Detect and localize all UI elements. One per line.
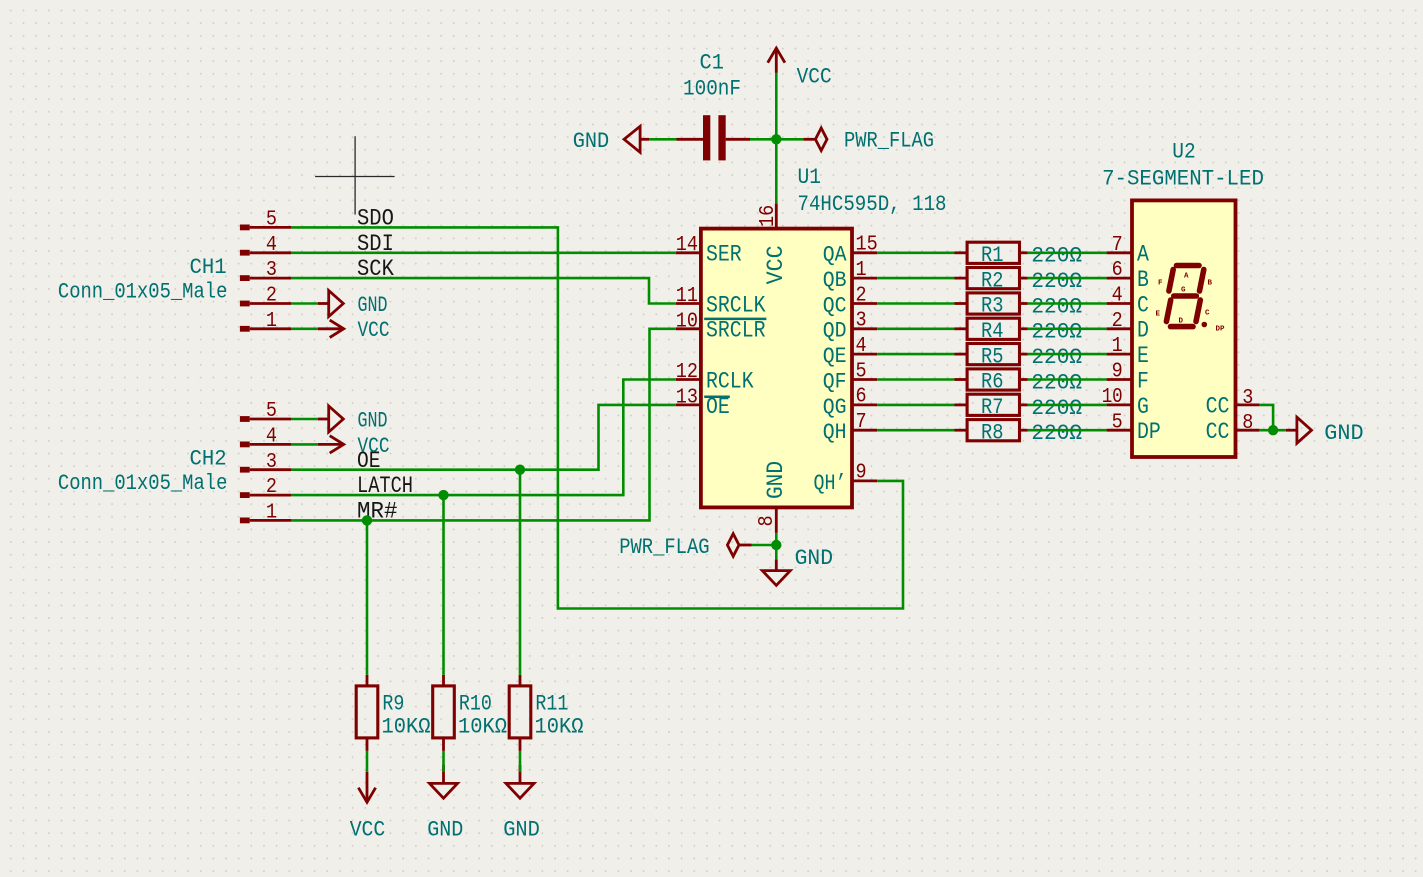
svg-text:7-SEGMENT-LED: 7-SEGMENT-LED (1102, 166, 1264, 192)
svg-text:VCC: VCC (358, 317, 390, 343)
svg-text:SRCLK: SRCLK (706, 292, 766, 318)
svg-text:4: 4 (856, 334, 867, 358)
svg-text:10KΩ: 10KΩ (382, 714, 431, 740)
svg-text:QF: QF (823, 369, 847, 394)
svg-text:Conn_01x05_Male: Conn_01x05_Male (58, 278, 228, 304)
svg-text:D: D (1137, 318, 1149, 344)
svg-text:R4: R4 (981, 318, 1004, 344)
svg-text:5: 5 (1112, 410, 1123, 434)
svg-text:5: 5 (266, 399, 277, 423)
svg-text:R1: R1 (981, 242, 1004, 268)
svg-text:74HC595D, 118: 74HC595D, 118 (798, 191, 947, 217)
svg-text:VCC: VCC (763, 245, 789, 284)
svg-text:DP: DP (1216, 326, 1226, 334)
svg-text:SRCLR: SRCLR (706, 318, 766, 344)
svg-text:B: B (1137, 267, 1149, 293)
svg-text:DP: DP (1137, 419, 1161, 445)
svg-text:R6: R6 (981, 369, 1004, 395)
svg-text:PWR_FLAG: PWR_FLAG (844, 128, 934, 154)
svg-text:CC: CC (1206, 419, 1230, 445)
svg-text:QA: QA (823, 243, 848, 268)
svg-text:QC: QC (823, 293, 847, 318)
svg-text:9: 9 (1112, 360, 1123, 384)
svg-text:SER: SER (706, 242, 742, 268)
svg-text:8: 8 (1242, 411, 1253, 435)
svg-text:2: 2 (856, 283, 867, 307)
svg-text:6: 6 (856, 385, 867, 409)
svg-text:E: E (1137, 343, 1149, 369)
svg-text:R8: R8 (981, 419, 1004, 445)
svg-text:GND: GND (795, 545, 833, 571)
svg-text:4: 4 (266, 233, 277, 257)
svg-text:G: G (1137, 394, 1149, 420)
svg-text:3: 3 (1242, 386, 1253, 410)
svg-text:G: G (1181, 287, 1186, 295)
svg-text:13: 13 (676, 385, 698, 409)
svg-text:E: E (1156, 311, 1161, 319)
svg-text:1: 1 (856, 258, 867, 282)
svg-text:U1: U1 (798, 164, 822, 190)
svg-text:2: 2 (266, 284, 277, 308)
svg-text:B: B (1208, 280, 1213, 288)
svg-text:R9: R9 (382, 691, 404, 717)
svg-text:16: 16 (756, 205, 780, 227)
svg-text:220Ω: 220Ω (1031, 344, 1082, 370)
svg-text:3: 3 (266, 450, 277, 474)
svg-text:15: 15 (856, 233, 878, 257)
svg-text:R11: R11 (535, 691, 568, 717)
svg-text:GND: GND (427, 816, 463, 842)
svg-text:220Ω: 220Ω (1031, 293, 1082, 319)
svg-text:6: 6 (1112, 258, 1123, 282)
svg-text:A: A (1184, 273, 1189, 281)
svg-text:QH’: QH’ (814, 471, 847, 496)
svg-text:220Ω: 220Ω (1031, 268, 1082, 294)
svg-text:1: 1 (266, 501, 277, 525)
svg-text:220Ω: 220Ω (1031, 319, 1082, 345)
svg-text:7: 7 (1112, 233, 1123, 257)
svg-text:1: 1 (1112, 334, 1123, 358)
svg-text:4: 4 (1112, 284, 1123, 308)
svg-text:Conn_01x05_Male: Conn_01x05_Male (58, 470, 228, 496)
svg-text:VCC: VCC (350, 816, 386, 842)
svg-text:10: 10 (676, 309, 698, 333)
svg-text:1: 1 (266, 309, 277, 333)
svg-text:10KΩ: 10KΩ (535, 714, 584, 740)
svg-text:F: F (1137, 368, 1149, 394)
svg-text:RCLK: RCLK (706, 368, 754, 394)
svg-text:D: D (1179, 318, 1184, 326)
svg-text:CH2: CH2 (190, 445, 227, 471)
svg-text:GND: GND (503, 816, 540, 842)
svg-text:220Ω: 220Ω (1031, 420, 1082, 446)
svg-text:2: 2 (266, 475, 277, 499)
svg-text:U2: U2 (1172, 138, 1195, 164)
svg-text:8: 8 (755, 515, 779, 526)
svg-text:R10: R10 (459, 691, 492, 717)
svg-text:7: 7 (856, 410, 867, 434)
svg-text:VCC: VCC (358, 433, 390, 459)
svg-text:3: 3 (856, 309, 867, 333)
svg-text:GND: GND (1324, 420, 1363, 446)
svg-text:R5: R5 (981, 343, 1004, 369)
svg-text:CH1: CH1 (190, 254, 227, 280)
svg-text:F: F (1158, 280, 1163, 288)
svg-text:A: A (1137, 242, 1149, 268)
svg-text:11: 11 (676, 284, 698, 308)
svg-text:220Ω: 220Ω (1031, 395, 1082, 421)
svg-text:CC: CC (1206, 394, 1230, 420)
svg-text:PWR_FLAG: PWR_FLAG (619, 534, 709, 560)
svg-text:100nF: 100nF (683, 76, 741, 102)
svg-text:C1: C1 (700, 50, 724, 76)
svg-text:VCC: VCC (797, 64, 832, 90)
svg-text:GND: GND (358, 407, 388, 433)
svg-text:GND: GND (358, 292, 388, 318)
svg-text:GND: GND (763, 461, 789, 499)
svg-text:R7: R7 (981, 394, 1004, 420)
svg-text:10KΩ: 10KΩ (458, 714, 507, 740)
svg-text:9: 9 (856, 461, 867, 485)
svg-text:14: 14 (676, 233, 698, 257)
svg-text:220Ω: 220Ω (1031, 369, 1082, 395)
svg-text:R2: R2 (981, 267, 1004, 293)
svg-text:QE: QE (823, 344, 847, 369)
svg-text:C: C (1137, 292, 1149, 318)
svg-text:R3: R3 (981, 293, 1004, 319)
svg-text:3: 3 (266, 258, 277, 282)
svg-text:QG: QG (823, 395, 847, 420)
svg-text:C: C (1205, 310, 1210, 318)
svg-text:QH: QH (823, 420, 847, 445)
svg-text:5: 5 (266, 208, 277, 232)
svg-text:QB: QB (823, 268, 847, 293)
svg-text:QD: QD (823, 319, 847, 344)
svg-text:2: 2 (1112, 309, 1123, 333)
svg-text:GND: GND (573, 128, 610, 154)
svg-text:4: 4 (266, 425, 277, 449)
svg-text:220Ω: 220Ω (1031, 243, 1082, 269)
svg-text:5: 5 (856, 359, 867, 383)
svg-text:12: 12 (676, 360, 698, 384)
